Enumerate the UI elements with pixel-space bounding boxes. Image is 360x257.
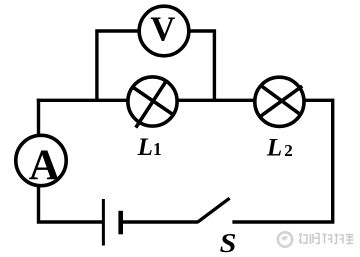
ammeter U-A — [16, 135, 66, 189]
svg-text:A: A — [29, 142, 60, 189]
voltmeter U-V — [139, 6, 189, 56]
svg-text:S: S — [220, 228, 237, 257]
label S — [220, 228, 237, 257]
svg-text:1: 1 — [153, 139, 162, 159]
lamp L1 — [128, 77, 177, 128]
switch S — [198, 198, 230, 222]
svg-text:L: L — [137, 134, 153, 161]
svg-text:L: L — [266, 135, 282, 162]
wire left side — [39, 99, 104, 222]
label L1 — [137, 134, 162, 161]
battery — [103, 199, 120, 246]
wire top main — [37, 99, 333, 102]
svg-text:V: V — [150, 10, 175, 48]
wire voltmeter branch — [97, 31, 214, 100]
watermark logo — [278, 232, 292, 246]
watermark text — [299, 234, 354, 245]
label L2 — [266, 135, 293, 162]
wire bottom right and right side — [232, 99, 332, 222]
svg-text:2: 2 — [284, 141, 293, 160]
wire bottom middle (battery to switch) — [121, 220, 198, 223]
lamp L2 — [255, 77, 304, 126]
